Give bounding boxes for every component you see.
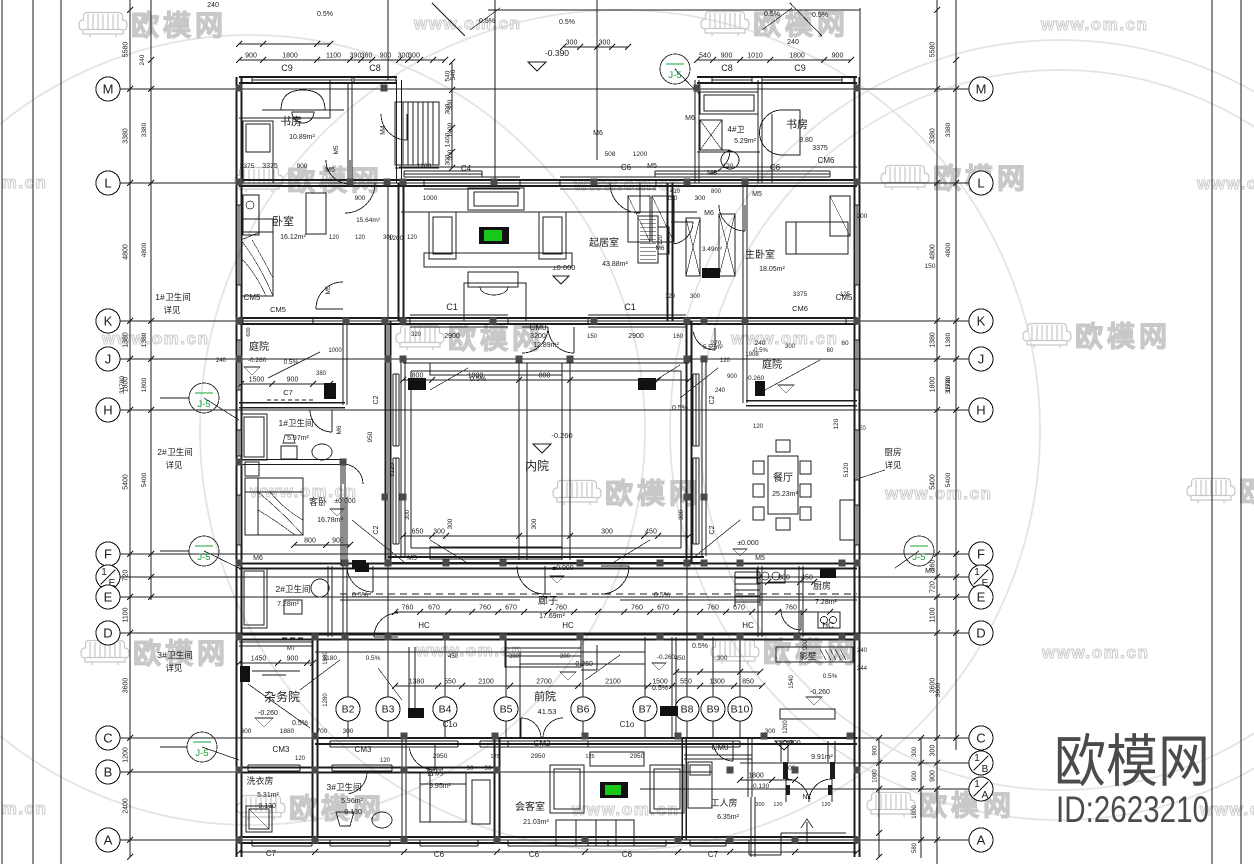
svg-text:300: 300 bbox=[930, 745, 937, 757]
svg-text:760: 760 bbox=[479, 605, 491, 612]
svg-text:1380: 1380 bbox=[409, 679, 425, 686]
svg-text:餐厅: 餐厅 bbox=[773, 471, 793, 484]
svg-text:300: 300 bbox=[599, 40, 611, 47]
svg-text:B9: B9 bbox=[707, 704, 720, 716]
svg-text:0.5%: 0.5% bbox=[284, 359, 299, 366]
svg-text:卫生间: 卫生间 bbox=[167, 447, 193, 457]
svg-text:670: 670 bbox=[657, 605, 669, 612]
svg-text:洗衣房: 洗衣房 bbox=[246, 775, 273, 786]
svg-text:1540: 1540 bbox=[789, 675, 795, 689]
svg-text:3600: 3600 bbox=[123, 678, 130, 694]
svg-text:0.5%: 0.5% bbox=[672, 405, 688, 412]
svg-text:欧模网: 欧模网 bbox=[1075, 321, 1171, 352]
svg-text:J-5: J-5 bbox=[912, 552, 925, 563]
svg-text:300: 300 bbox=[912, 746, 918, 757]
svg-text:41.53: 41.53 bbox=[538, 707, 557, 716]
svg-text:540: 540 bbox=[450, 69, 457, 80]
svg-text:120: 120 bbox=[773, 802, 782, 808]
svg-text:M5: M5 bbox=[325, 285, 332, 294]
svg-text:HC: HC bbox=[418, 621, 430, 630]
svg-text:影壁: 影壁 bbox=[799, 651, 817, 661]
svg-text:3380: 3380 bbox=[141, 122, 148, 137]
svg-text:10.89m²: 10.89m² bbox=[289, 134, 315, 141]
svg-text:270: 270 bbox=[711, 340, 722, 347]
svg-text:0.5%: 0.5% bbox=[317, 11, 333, 18]
svg-text:0.5%: 0.5% bbox=[479, 18, 495, 25]
svg-text:1800: 1800 bbox=[748, 773, 764, 780]
svg-text:1200: 1200 bbox=[123, 747, 130, 763]
svg-text:F: F bbox=[104, 547, 112, 562]
svg-text:1380: 1380 bbox=[123, 332, 130, 348]
svg-text:C6: C6 bbox=[434, 850, 445, 859]
svg-text:-0.260: -0.260 bbox=[657, 654, 676, 661]
svg-text:-0.260: -0.260 bbox=[248, 357, 267, 364]
svg-text:欧模网: 欧模网 bbox=[919, 790, 1015, 821]
svg-text:600: 600 bbox=[246, 327, 252, 336]
svg-text:1800: 1800 bbox=[945, 377, 952, 392]
svg-text:9.91m²: 9.91m² bbox=[811, 754, 833, 761]
svg-text:17.69m²: 17.69m² bbox=[539, 613, 565, 620]
svg-text:1100: 1100 bbox=[930, 607, 937, 622]
svg-text:1200: 1200 bbox=[417, 163, 432, 170]
svg-text:C7: C7 bbox=[283, 388, 293, 397]
svg-text:HC: HC bbox=[562, 621, 574, 630]
svg-text:5.96m²: 5.96m² bbox=[341, 798, 363, 805]
svg-text:B8: B8 bbox=[681, 704, 694, 716]
svg-text:18.05m²: 18.05m² bbox=[759, 266, 785, 273]
svg-text:15.64m²: 15.64m² bbox=[356, 217, 381, 224]
svg-text:1800: 1800 bbox=[930, 377, 937, 393]
svg-text:300: 300 bbox=[601, 529, 613, 536]
svg-text:0.5%: 0.5% bbox=[559, 19, 575, 26]
svg-text:3375: 3375 bbox=[793, 291, 808, 298]
svg-text:www.om.cn: www.om.cn bbox=[413, 14, 521, 33]
svg-text:120: 120 bbox=[665, 294, 676, 300]
svg-text:J-5: J-5 bbox=[668, 70, 681, 81]
svg-text:5400: 5400 bbox=[141, 472, 148, 487]
svg-text:2900: 2900 bbox=[444, 333, 460, 340]
svg-text:C9: C9 bbox=[794, 63, 806, 73]
svg-text:书房: 书房 bbox=[786, 118, 808, 131]
svg-text:125: 125 bbox=[490, 754, 499, 760]
svg-text:5400: 5400 bbox=[930, 474, 937, 490]
svg-text:450: 450 bbox=[448, 654, 459, 660]
svg-text:120: 120 bbox=[720, 358, 731, 364]
svg-text:起居室: 起居室 bbox=[589, 236, 619, 249]
svg-text:E: E bbox=[104, 590, 113, 605]
svg-text:4800: 4800 bbox=[141, 242, 148, 257]
svg-text:800: 800 bbox=[412, 373, 424, 380]
svg-text:5400: 5400 bbox=[945, 472, 952, 487]
svg-text:M6: M6 bbox=[593, 130, 603, 137]
svg-text:120: 120 bbox=[295, 756, 306, 762]
svg-text:M5: M5 bbox=[325, 167, 335, 174]
svg-text:3380: 3380 bbox=[945, 122, 952, 137]
svg-text:900: 900 bbox=[857, 213, 868, 220]
svg-text:1380: 1380 bbox=[930, 332, 937, 348]
svg-text:900: 900 bbox=[245, 53, 257, 60]
svg-text:550: 550 bbox=[680, 679, 692, 686]
svg-text:5580: 5580 bbox=[123, 42, 130, 58]
svg-text:900: 900 bbox=[287, 377, 299, 384]
svg-text:N1: N1 bbox=[803, 794, 812, 801]
svg-text:25.23m²: 25.23m² bbox=[772, 491, 798, 498]
svg-text:0.5%: 0.5% bbox=[823, 673, 838, 680]
svg-text:360: 360 bbox=[930, 560, 937, 572]
svg-text:K: K bbox=[977, 314, 986, 329]
svg-text:C7: C7 bbox=[266, 849, 277, 858]
svg-text:670: 670 bbox=[505, 605, 517, 612]
svg-text:600: 600 bbox=[241, 728, 252, 735]
svg-text:900: 900 bbox=[721, 53, 733, 60]
svg-text:0.5%: 0.5% bbox=[692, 643, 708, 650]
svg-text:580: 580 bbox=[912, 842, 918, 853]
svg-text:4800: 4800 bbox=[945, 242, 952, 257]
svg-text:1500: 1500 bbox=[652, 679, 668, 686]
svg-text:1500: 1500 bbox=[249, 377, 265, 384]
svg-text:C: C bbox=[976, 731, 985, 746]
svg-text:主卧室: 主卧室 bbox=[745, 248, 775, 261]
svg-text:详见: 详见 bbox=[165, 663, 183, 673]
svg-text:240: 240 bbox=[857, 648, 868, 654]
svg-text:1800: 1800 bbox=[912, 805, 918, 819]
svg-text:120: 120 bbox=[355, 235, 366, 241]
svg-text:杂务院: 杂务院 bbox=[264, 689, 300, 704]
svg-text:C1: C1 bbox=[446, 302, 458, 312]
svg-text:www.om.cn: www.om.cn bbox=[1041, 643, 1149, 662]
svg-text:2#卫生间: 2#卫生间 bbox=[276, 584, 311, 594]
svg-text:240: 240 bbox=[755, 340, 766, 347]
svg-text:1200: 1200 bbox=[633, 151, 648, 158]
svg-text:www.om.cn: www.om.cn bbox=[0, 173, 47, 192]
svg-text:508: 508 bbox=[605, 151, 616, 158]
svg-text:3375: 3375 bbox=[240, 163, 255, 170]
svg-text:720: 720 bbox=[123, 570, 130, 582]
svg-text:1100: 1100 bbox=[123, 607, 130, 622]
svg-text:厨房: 厨房 bbox=[813, 580, 831, 591]
svg-text:B2: B2 bbox=[342, 704, 355, 716]
svg-text:客卧: 客卧 bbox=[309, 496, 327, 507]
svg-text:4800: 4800 bbox=[123, 244, 130, 260]
svg-text:0.5%: 0.5% bbox=[812, 12, 828, 19]
svg-text:360: 360 bbox=[361, 53, 373, 60]
svg-text:M7: M7 bbox=[287, 646, 296, 652]
svg-text:C6: C6 bbox=[622, 850, 633, 859]
svg-text:300: 300 bbox=[433, 529, 445, 536]
svg-text:150: 150 bbox=[925, 263, 936, 270]
svg-text:900: 900 bbox=[803, 639, 809, 650]
svg-text:3#: 3# bbox=[157, 650, 167, 660]
svg-text:3.49m²: 3.49m² bbox=[702, 246, 723, 253]
svg-text:120: 120 bbox=[723, 163, 734, 170]
svg-text:9.95m²: 9.95m² bbox=[429, 783, 451, 790]
svg-text:1200: 1200 bbox=[389, 235, 404, 242]
svg-text:±0.000: ±0.000 bbox=[737, 540, 758, 547]
svg-text:5400: 5400 bbox=[123, 474, 130, 490]
svg-text:900: 900 bbox=[873, 745, 879, 756]
svg-text:300: 300 bbox=[566, 40, 578, 47]
svg-text:240: 240 bbox=[216, 358, 227, 364]
svg-text:2700: 2700 bbox=[536, 679, 552, 686]
svg-text:H: H bbox=[976, 403, 985, 418]
svg-text:1450: 1450 bbox=[251, 656, 267, 663]
svg-text:-0.260: -0.260 bbox=[810, 689, 830, 696]
svg-text:300: 300 bbox=[408, 53, 420, 60]
svg-text:760: 760 bbox=[555, 605, 567, 612]
svg-text:2950: 2950 bbox=[531, 753, 546, 760]
svg-text:-0.130: -0.130 bbox=[751, 783, 770, 790]
svg-text:HC: HC bbox=[742, 621, 754, 630]
svg-text:5120: 5120 bbox=[389, 462, 396, 477]
svg-text:J-5: J-5 bbox=[195, 748, 208, 759]
svg-text:300: 300 bbox=[447, 149, 454, 160]
svg-text:-0.260: -0.260 bbox=[551, 431, 572, 440]
svg-text:160: 160 bbox=[673, 334, 684, 340]
svg-text:1000: 1000 bbox=[423, 195, 438, 202]
svg-text:670: 670 bbox=[428, 605, 440, 612]
svg-text:120: 120 bbox=[329, 235, 340, 241]
svg-text:www.om.cn: www.om.cn bbox=[415, 641, 523, 660]
svg-text:900: 900 bbox=[355, 195, 366, 202]
svg-text:C1: C1 bbox=[624, 302, 636, 312]
svg-text:H: H bbox=[103, 403, 112, 418]
svg-text:0.5%: 0.5% bbox=[764, 11, 780, 18]
svg-text:760: 760 bbox=[402, 605, 414, 612]
svg-text:900: 900 bbox=[287, 656, 299, 663]
svg-text:2950: 2950 bbox=[433, 753, 448, 760]
svg-text:C6: C6 bbox=[621, 163, 632, 172]
svg-text:J: J bbox=[978, 352, 985, 367]
svg-text:1#卫生间: 1#卫生间 bbox=[279, 418, 314, 428]
svg-text:CM0: CM0 bbox=[530, 323, 547, 332]
svg-text:C1o: C1o bbox=[620, 720, 635, 729]
svg-text:7.28m²: 7.28m² bbox=[815, 599, 837, 606]
svg-text:2950: 2950 bbox=[630, 753, 645, 760]
svg-text:M5: M5 bbox=[333, 145, 340, 154]
svg-text:300: 300 bbox=[447, 99, 454, 110]
svg-text:C4: C4 bbox=[461, 164, 472, 173]
svg-text:380: 380 bbox=[316, 371, 327, 377]
svg-text:2400: 2400 bbox=[123, 798, 130, 814]
svg-text:0.5%: 0.5% bbox=[470, 376, 486, 383]
svg-text:C7: C7 bbox=[708, 850, 719, 859]
svg-text:9.80: 9.80 bbox=[799, 137, 813, 144]
svg-text:庭院: 庭院 bbox=[249, 340, 269, 353]
svg-text:www.om.cn: www.om.cn bbox=[884, 484, 992, 503]
svg-text:0.5%: 0.5% bbox=[352, 592, 368, 599]
svg-text:60: 60 bbox=[841, 340, 849, 347]
svg-text:760: 760 bbox=[707, 605, 719, 612]
svg-text:240: 240 bbox=[207, 2, 219, 9]
svg-text:M: M bbox=[976, 82, 987, 97]
svg-text:90: 90 bbox=[484, 765, 492, 772]
svg-text:300: 300 bbox=[785, 344, 796, 350]
svg-text:300: 300 bbox=[695, 195, 706, 202]
svg-text:M5: M5 bbox=[407, 555, 417, 562]
svg-text:L: L bbox=[977, 176, 984, 191]
svg-text:详见: 详见 bbox=[163, 305, 181, 315]
svg-text:2#: 2# bbox=[157, 447, 167, 457]
svg-text:5.29m²: 5.29m² bbox=[734, 138, 756, 145]
svg-text:M6: M6 bbox=[704, 210, 714, 217]
svg-text:60: 60 bbox=[827, 348, 834, 354]
svg-text:±0.000: ±0.000 bbox=[552, 565, 573, 572]
svg-text:M: M bbox=[103, 82, 114, 97]
svg-text:300: 300 bbox=[755, 802, 764, 808]
svg-text:A: A bbox=[104, 833, 113, 848]
svg-text:www.om.cn: www.om.cn bbox=[1040, 15, 1148, 34]
svg-text:300: 300 bbox=[560, 654, 571, 660]
svg-text:前院: 前院 bbox=[534, 689, 556, 703]
svg-text:1080: 1080 bbox=[873, 769, 879, 783]
svg-text:M6: M6 bbox=[655, 245, 664, 252]
svg-text:-0.390: -0.390 bbox=[545, 48, 569, 58]
svg-text:±0.000: ±0.000 bbox=[334, 498, 355, 505]
svg-text:C: C bbox=[103, 731, 112, 746]
svg-text:B: B bbox=[982, 764, 989, 775]
svg-text:会客室: 会客室 bbox=[515, 800, 545, 813]
svg-text:300: 300 bbox=[405, 509, 411, 520]
svg-text:6.35m²: 6.35m² bbox=[717, 814, 739, 821]
svg-text:900: 900 bbox=[727, 374, 738, 380]
svg-text:B4: B4 bbox=[439, 704, 452, 716]
svg-text:300: 300 bbox=[690, 294, 701, 300]
svg-text:1880: 1880 bbox=[280, 728, 295, 735]
svg-text:900: 900 bbox=[832, 53, 844, 60]
svg-text:3375: 3375 bbox=[812, 145, 828, 152]
svg-text:90: 90 bbox=[466, 765, 474, 772]
svg-text:1800: 1800 bbox=[282, 53, 298, 60]
svg-text:D: D bbox=[976, 626, 985, 641]
svg-text:240: 240 bbox=[787, 39, 799, 46]
svg-text:书房: 书房 bbox=[280, 115, 302, 128]
svg-text:1000: 1000 bbox=[328, 348, 342, 354]
svg-text:240: 240 bbox=[139, 54, 146, 65]
svg-text:详见: 详见 bbox=[884, 460, 902, 470]
svg-text:16.78m²: 16.78m² bbox=[317, 517, 343, 524]
svg-text:900: 900 bbox=[930, 770, 937, 782]
svg-text:1380: 1380 bbox=[945, 332, 952, 347]
svg-text:300: 300 bbox=[531, 518, 538, 529]
svg-text:B10: B10 bbox=[731, 704, 750, 716]
svg-text:1800: 1800 bbox=[141, 377, 148, 392]
svg-text:E: E bbox=[977, 590, 986, 605]
svg-text:CM5: CM5 bbox=[270, 305, 286, 314]
svg-text:欧模网: 欧模网 bbox=[289, 793, 385, 824]
svg-text:欧模网: 欧模网 bbox=[131, 10, 227, 41]
svg-text:-0.130: -0.130 bbox=[342, 809, 362, 816]
svg-text:1200: 1200 bbox=[783, 720, 789, 734]
svg-text:A: A bbox=[977, 833, 986, 848]
svg-text:C2: C2 bbox=[709, 525, 716, 534]
svg-text:B6: B6 bbox=[577, 704, 590, 716]
svg-text:800: 800 bbox=[304, 538, 316, 545]
svg-text:760: 760 bbox=[785, 605, 797, 612]
svg-text:ID:2623210: ID:2623210 bbox=[1056, 789, 1209, 830]
svg-text:120: 120 bbox=[380, 758, 391, 764]
svg-text:3380: 3380 bbox=[123, 128, 130, 144]
svg-text:卫生间: 卫生间 bbox=[165, 292, 191, 302]
svg-text:900: 900 bbox=[297, 163, 308, 170]
svg-text:3600: 3600 bbox=[930, 678, 937, 694]
svg-text:125: 125 bbox=[585, 754, 594, 760]
svg-text:E0: E0 bbox=[858, 426, 866, 432]
svg-text:31780: 31780 bbox=[119, 376, 126, 394]
svg-text:1180: 1180 bbox=[323, 655, 337, 662]
svg-text:120: 120 bbox=[407, 235, 418, 241]
svg-text:CM3: CM3 bbox=[355, 745, 372, 754]
svg-text:1: 1 bbox=[974, 753, 980, 764]
svg-text:欧模网: 欧模网 bbox=[1054, 730, 1210, 794]
svg-text:F: F bbox=[977, 547, 985, 562]
svg-text:详见: 详见 bbox=[165, 460, 183, 470]
svg-text:1100: 1100 bbox=[326, 53, 341, 60]
svg-text:3200: 3200 bbox=[530, 333, 546, 340]
svg-text:M5: M5 bbox=[755, 555, 765, 562]
svg-text:550: 550 bbox=[444, 679, 456, 686]
svg-text:5.31m²: 5.31m² bbox=[257, 792, 279, 799]
svg-text:www.om.cn: www.om.cn bbox=[0, 799, 47, 818]
svg-text:HC: HC bbox=[822, 621, 834, 630]
svg-text:0.5%: 0.5% bbox=[654, 592, 670, 599]
svg-text:150: 150 bbox=[587, 334, 598, 340]
svg-text:工人房: 工人房 bbox=[710, 797, 737, 808]
svg-text:C8: C8 bbox=[369, 63, 381, 73]
svg-text:850: 850 bbox=[742, 679, 754, 686]
svg-text:720: 720 bbox=[930, 581, 937, 593]
svg-text:900: 900 bbox=[332, 538, 344, 545]
svg-text:1010: 1010 bbox=[747, 53, 763, 60]
svg-text:B: B bbox=[104, 765, 113, 780]
svg-text:M6: M6 bbox=[253, 555, 263, 562]
svg-text:1: 1 bbox=[101, 567, 107, 578]
svg-text:1280: 1280 bbox=[323, 693, 329, 707]
svg-text:www.om.cn: www.om.cn bbox=[101, 329, 209, 348]
svg-text:21.03m²: 21.03m² bbox=[523, 819, 549, 826]
svg-text:C9: C9 bbox=[281, 63, 293, 73]
svg-text:M6: M6 bbox=[685, 115, 695, 122]
svg-text:0.5%: 0.5% bbox=[366, 655, 381, 662]
svg-text:800: 800 bbox=[539, 373, 551, 380]
svg-text:1#: 1# bbox=[155, 292, 165, 302]
svg-text:120: 120 bbox=[833, 418, 840, 429]
svg-text:43.88m²: 43.88m² bbox=[602, 261, 628, 268]
svg-text:4#卫: 4#卫 bbox=[728, 125, 745, 134]
svg-text:900: 900 bbox=[380, 53, 392, 60]
svg-text:5120: 5120 bbox=[843, 462, 850, 477]
svg-text:B5: B5 bbox=[500, 704, 513, 716]
svg-text:5580: 5580 bbox=[930, 42, 937, 58]
svg-text:-0.260: -0.260 bbox=[258, 710, 278, 717]
svg-text:C8: C8 bbox=[721, 63, 733, 73]
svg-text:www.om.cn: www.om.cn bbox=[573, 175, 681, 194]
svg-text:120: 120 bbox=[821, 802, 830, 808]
svg-text:800: 800 bbox=[711, 189, 722, 195]
svg-text:4800: 4800 bbox=[930, 244, 937, 260]
svg-text:900: 900 bbox=[912, 770, 918, 781]
svg-text:J: J bbox=[105, 352, 112, 367]
svg-text:M6: M6 bbox=[336, 425, 343, 434]
svg-text:卫生间: 卫生间 bbox=[167, 650, 193, 660]
svg-text:540: 540 bbox=[699, 53, 711, 60]
svg-text:1300: 1300 bbox=[709, 679, 725, 686]
svg-text:A: A bbox=[982, 790, 989, 801]
svg-text:1400: 1400 bbox=[447, 122, 454, 137]
svg-text:-0.260: -0.260 bbox=[746, 375, 765, 382]
svg-text:1: 1 bbox=[974, 779, 980, 790]
svg-text:K: K bbox=[104, 314, 113, 329]
svg-text:240: 240 bbox=[715, 388, 726, 394]
